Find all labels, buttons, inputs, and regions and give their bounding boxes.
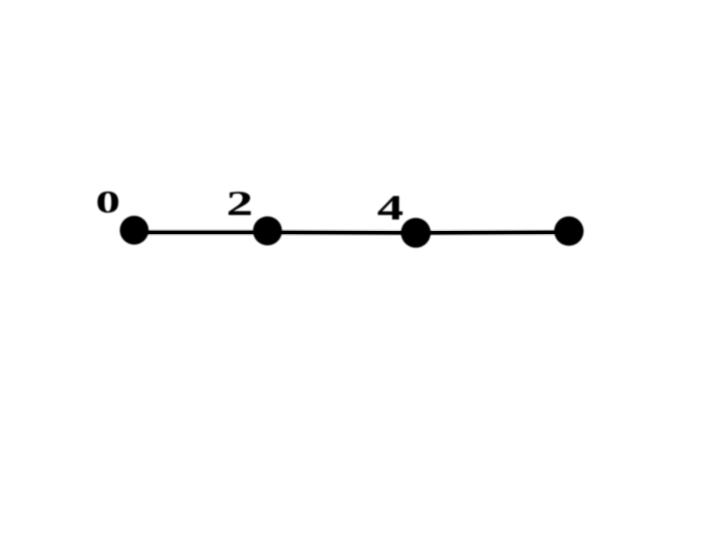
wire segment from node 4 to node 6 [416, 231, 569, 235]
wire segment from node 2 to node 4 [268, 231, 416, 235]
node dot 2 [253, 216, 282, 245]
svg-text:2: 2 [226, 184, 253, 223]
node dot 4 [401, 218, 431, 248]
node dot 0 [120, 216, 149, 245]
node dot 6 (unlabeled) [554, 216, 583, 245]
wire halo (soft edge) from node 0 to node 6 [134, 229, 569, 236]
svg-text:4: 4 [377, 188, 403, 228]
svg-text:0: 0 [96, 184, 121, 219]
wire segment from node 0 to node 2 [134, 231, 268, 235]
